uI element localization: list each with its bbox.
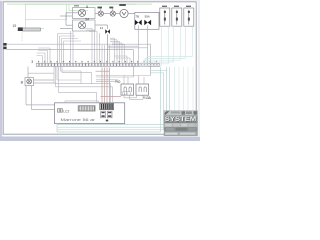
svg-text:7B: 7B (136, 15, 140, 19)
svg-text:19: 19 (13, 24, 17, 28)
svg-text:LC2: LC2 (63, 109, 69, 113)
svg-text:6: 6 (86, 5, 88, 9)
svg-text:SYSTEM: SYSTEM (165, 116, 197, 123)
svg-text:T/O: T/O (115, 80, 121, 84)
svg-text:59A: 59A (145, 15, 150, 19)
svg-text:3: 3 (31, 60, 33, 64)
svg-text:12: 12 (100, 26, 104, 30)
svg-text:Marrone 56 ar: Marrone 56 ar (61, 118, 97, 122)
svg-text:Y13A: Y13A (143, 96, 152, 100)
svg-text:1.5: 1.5 (123, 92, 128, 96)
